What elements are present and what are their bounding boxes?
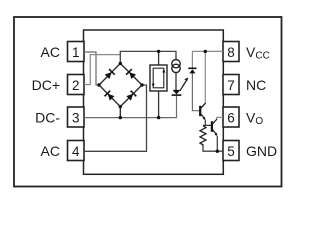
border frame: [14, 17, 282, 187]
bridge rectifier diamond: [99, 63, 142, 106]
diode D1 (left-top arm): [104, 69, 114, 79]
svg-text:DC-: DC-: [35, 109, 60, 125]
photodiode D6: [188, 68, 196, 73]
resistor R1: [200, 126, 206, 147]
svg-text:AC: AC: [41, 44, 60, 60]
svg-text:AC: AC: [41, 143, 60, 159]
current source CS1: [172, 60, 180, 73]
wire Q1 emitter to Q2 base and resistor top: [205, 120, 211, 125]
wire pin2 to bridge top vertex: [84, 55, 120, 85]
diode D3 (bottom-left arm): [105, 91, 115, 101]
svg-text:DC+: DC+: [32, 77, 60, 93]
junction node bridge-to-rail: [119, 116, 122, 119]
pin 1 box: [68, 42, 85, 62]
IC body U1: [84, 30, 224, 174]
svg-text:6: 6: [227, 111, 235, 126]
junction node left vertex: [97, 83, 100, 86]
junction node right vertex: [140, 83, 143, 86]
svg-text:GND: GND: [246, 143, 277, 159]
junction node bottom vertex: [119, 105, 122, 108]
transistor Q2: [212, 119, 218, 136]
wire Q2 emitter down: [216, 136, 218, 151]
svg-text:8: 8: [227, 45, 235, 60]
bridge bottom stub: [119, 107, 121, 118]
pin 5 box: [223, 141, 239, 161]
wire Q1 collector to rail: [204, 51, 206, 102]
pin 4 box: [68, 141, 85, 161]
diode D2 (right-top arm): [126, 69, 136, 79]
wire output rail pin8: [192, 51, 223, 68]
svg-text:4: 4: [72, 144, 80, 159]
svg-text:7: 7: [227, 78, 235, 93]
junction node regulator bottom: [157, 116, 160, 119]
wire photodiode anode to Q1 base: [192, 73, 199, 110]
svg-text:1: 1: [72, 45, 80, 60]
pin 3 box: [68, 107, 85, 127]
pin 2 box: [68, 75, 85, 95]
wire current source to LED: [175, 73, 177, 91]
junction node Q1 collector rail: [204, 50, 207, 53]
LED D5: [172, 90, 182, 95]
wire regulator top lead: [158, 51, 160, 65]
svg-text:5: 5: [227, 144, 235, 159]
junction node top vertex: [119, 62, 122, 65]
wire top rail input side: [120, 51, 176, 63]
pin 8 box: [223, 42, 239, 62]
wire resistor top: [203, 124, 205, 126]
svg-text:2: 2: [72, 78, 80, 93]
wire pin1 to bridge left vertex: [84, 52, 99, 85]
svg-text:3: 3: [72, 111, 80, 126]
wire Q2 collector to pin6: [217, 117, 223, 119]
wire resistor bottom to pin5: [203, 147, 223, 152]
wire pin4 to bridge right vertex: [84, 85, 147, 151]
junction node emitter pin5: [216, 150, 219, 153]
wire regulator bottom lead: [158, 91, 160, 118]
light coupling arrow: [180, 77, 188, 90]
regulator box U2: [150, 65, 167, 91]
svg-text:NC: NC: [246, 77, 266, 93]
transistor Q1: [200, 103, 205, 120]
wire pin3 bottom rail: [84, 96, 177, 118]
pin 6 box: [223, 107, 239, 127]
diode D4 (bottom-right arm): [126, 91, 136, 101]
pin 7 box: [223, 75, 239, 95]
junction node regulator top: [157, 50, 160, 53]
